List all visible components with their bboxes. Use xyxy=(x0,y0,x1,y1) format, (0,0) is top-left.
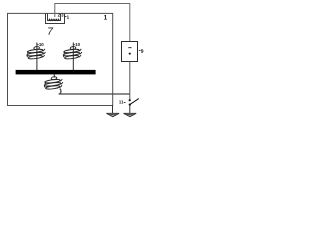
svg-text:1: 1 xyxy=(104,15,108,22)
svg-text:9: 9 xyxy=(141,49,144,55)
svg-text:11: 11 xyxy=(119,99,124,104)
svg-text:1: 1 xyxy=(67,15,70,20)
svg-text:10: 10 xyxy=(75,42,80,47)
svg-text:10: 10 xyxy=(39,42,44,47)
